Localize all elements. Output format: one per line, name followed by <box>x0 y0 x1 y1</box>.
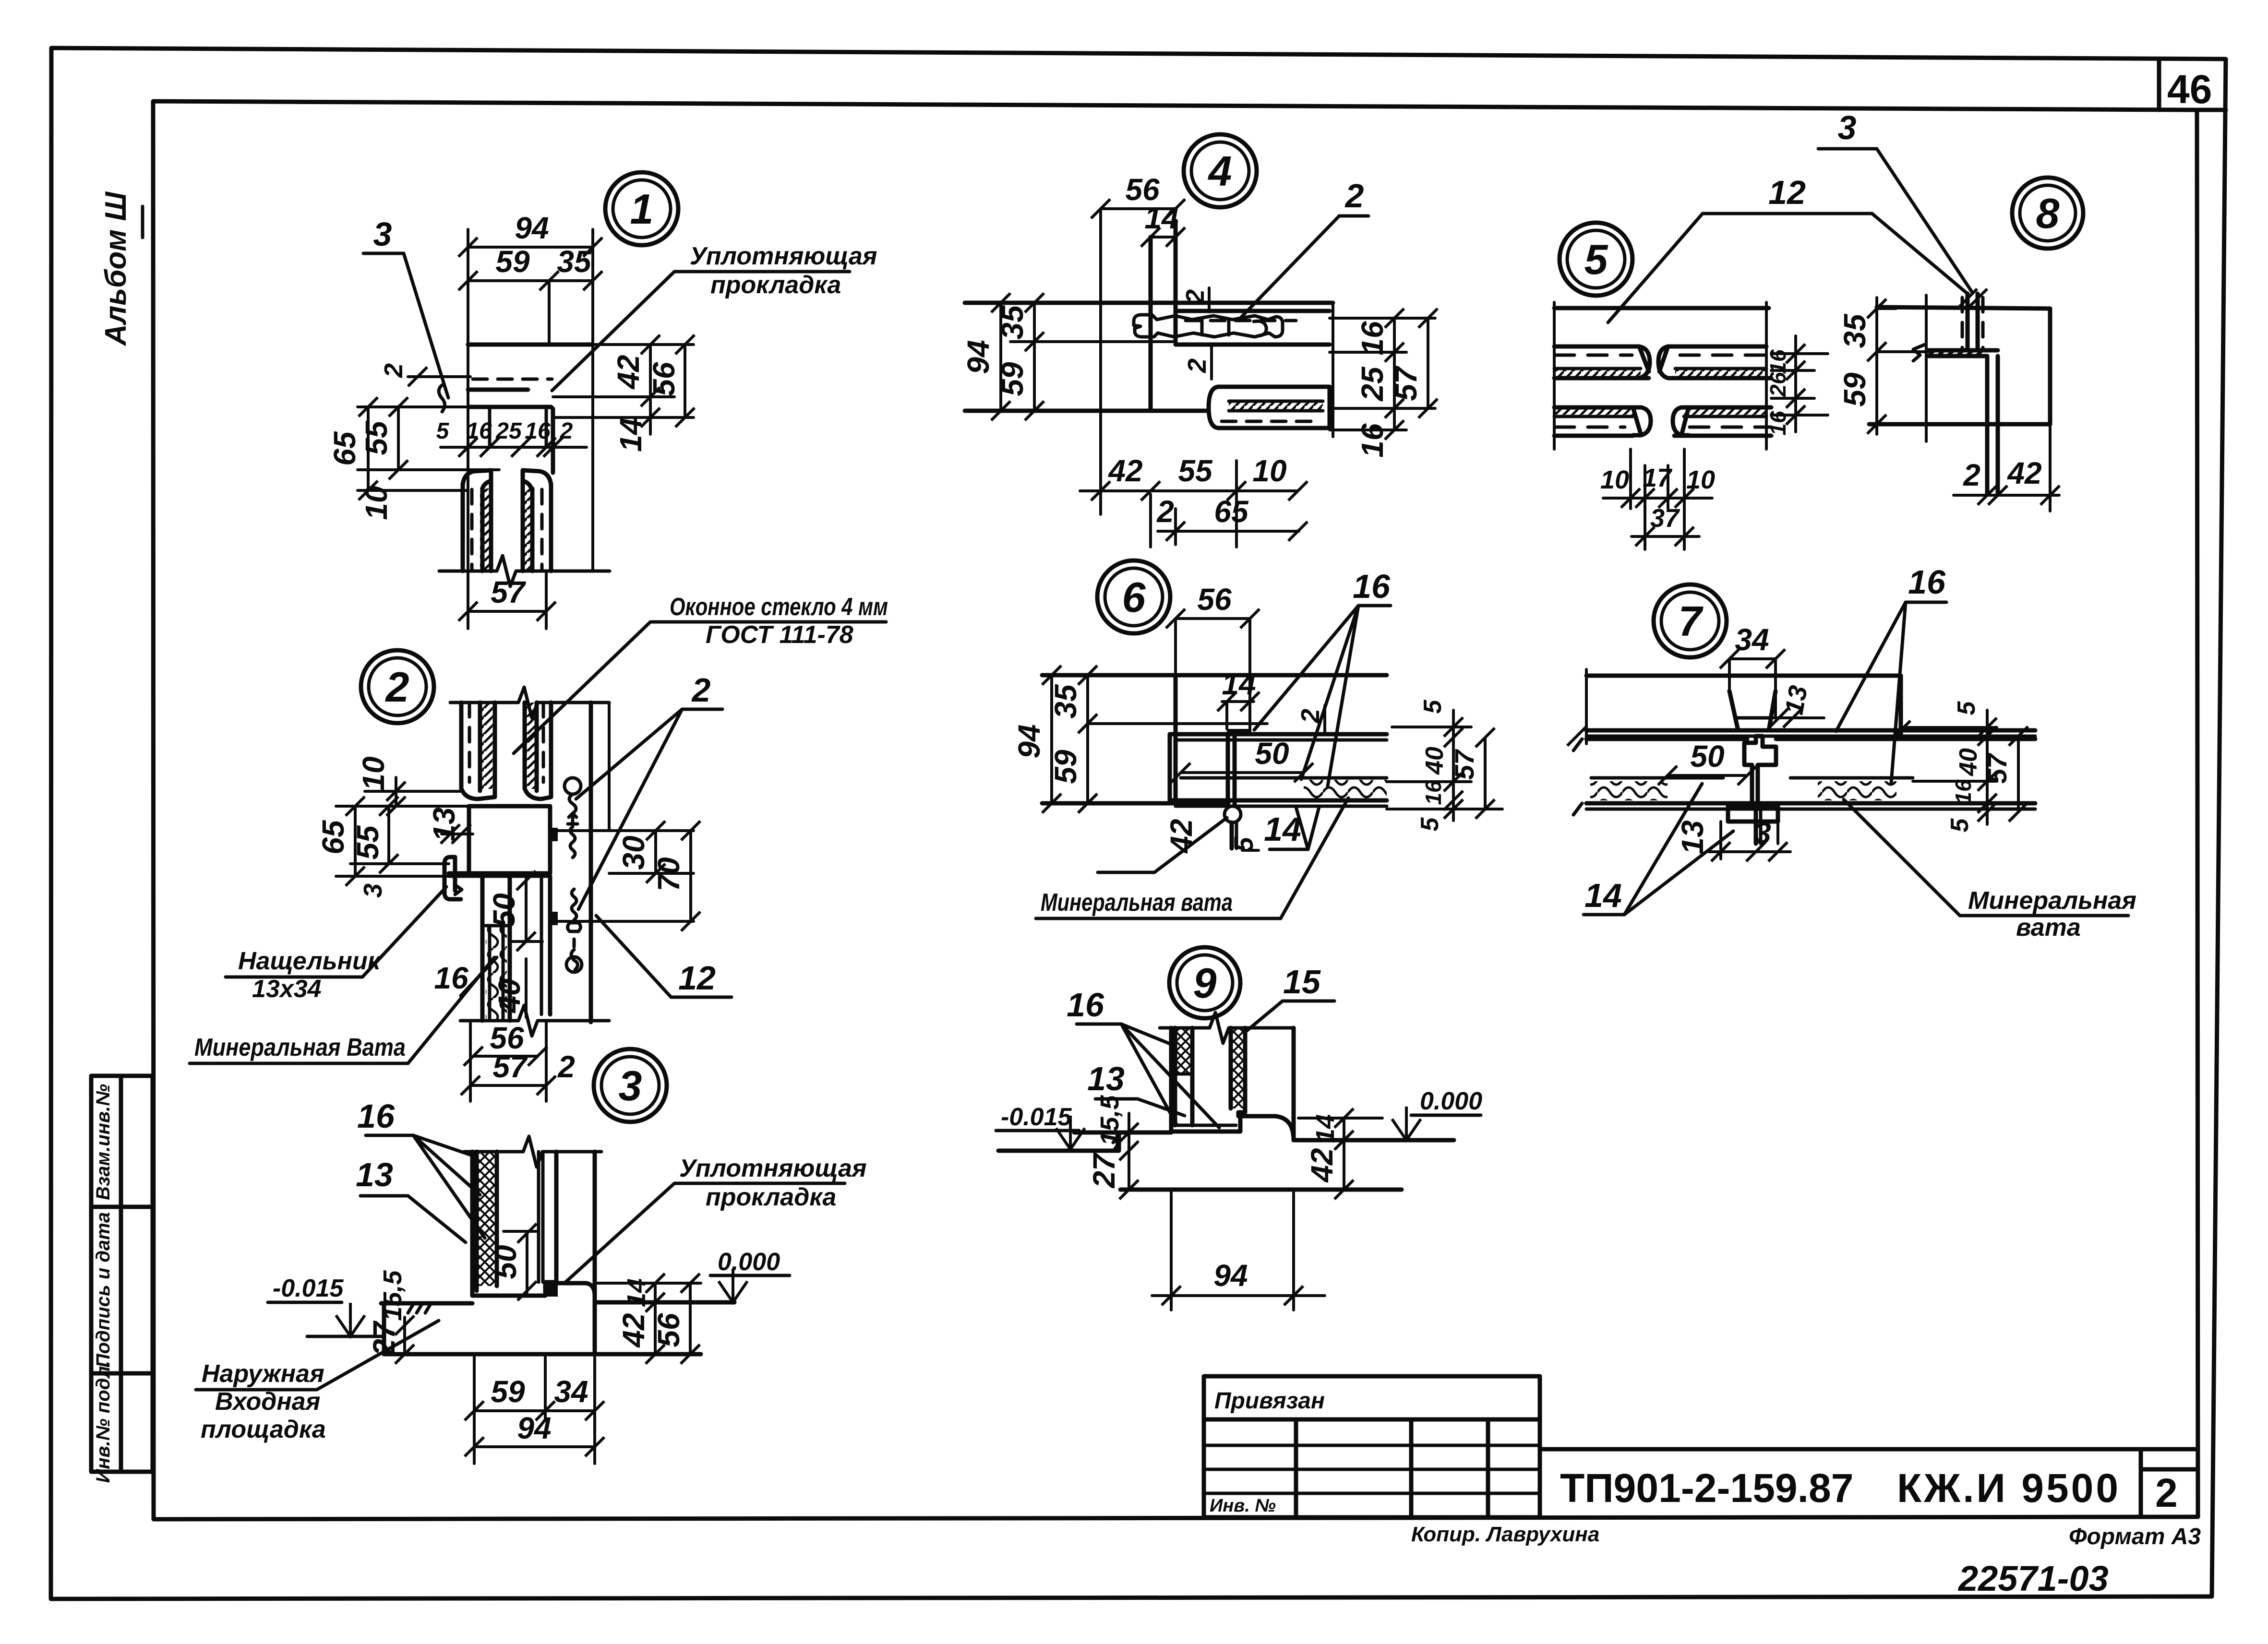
sheet inner border frame <box>153 101 2198 1519</box>
svg-text:30: 30 <box>616 835 651 870</box>
dim 42 with leader (detail 6) <box>1098 818 1227 872</box>
svg-text:Входная: Входная <box>215 1388 320 1416</box>
label 16 (detail 2) <box>434 957 497 996</box>
svg-text:27: 27 <box>1087 1152 1121 1189</box>
view circle 1 <box>605 172 678 245</box>
svg-text:вата: вата <box>2016 914 2081 941</box>
svg-text:16: 16 <box>1765 411 1790 436</box>
svg-text:35: 35 <box>995 305 1030 340</box>
lower unit with wool packing <box>482 876 550 1021</box>
svg-text:50: 50 <box>487 893 521 927</box>
svg-text:42: 42 <box>611 355 646 390</box>
svg-text:Копир. Лаврухина: Копир. Лаврухина <box>1411 1523 1599 1546</box>
svg-text:2: 2 <box>1156 494 1174 529</box>
svg-text:4: 4 <box>1208 147 1232 195</box>
door leaf horizontal (detail 6) <box>1170 734 1387 806</box>
svg-text:65: 65 <box>316 820 350 855</box>
svg-text:ТП901-2-159.87: ТП901-2-159.87 <box>1560 1465 1853 1511</box>
upper leaf band (detail 5) <box>1554 346 1771 378</box>
label 16 fan (detail 9) <box>1067 986 1219 1128</box>
svg-text:16: 16 <box>466 418 492 444</box>
svg-text:1: 1 <box>630 185 654 233</box>
svg-text:16: 16 <box>434 961 468 995</box>
svg-text:65: 65 <box>327 431 362 466</box>
note: Уплотняющая прокладка (detail 1) <box>552 242 877 391</box>
svg-text:Инв.№ подл.: Инв.№ подл. <box>93 1361 114 1483</box>
svg-text:Подпись и дата: Подпись и дата <box>93 1212 114 1368</box>
label 13 left (detail 2) <box>427 807 473 844</box>
svg-text:5: 5 <box>436 418 450 444</box>
interior floor (detail 9) <box>1294 1138 1454 1143</box>
dim 94 <box>458 211 602 257</box>
svg-text:3: 3 <box>1838 109 1857 146</box>
svg-text:Оконное стекло 4 мм: Оконное стекло 4 мм <box>670 593 888 621</box>
svg-text:35: 35 <box>1837 313 1872 348</box>
left dims 15,5 27 (detail 9) <box>1087 1095 1139 1199</box>
svg-text:25: 25 <box>495 418 522 444</box>
svg-text:16: 16 <box>1421 780 1446 805</box>
svg-text:50: 50 <box>1690 739 1724 774</box>
svg-text:16: 16 <box>525 418 551 444</box>
upper right sash <box>525 703 551 799</box>
svg-text:5: 5 <box>1584 236 1608 283</box>
corner drawing (detail 8) <box>1869 289 2050 493</box>
svg-text:ГОСТ 111-78: ГОСТ 111-78 <box>706 621 853 649</box>
level 0.000 (detail 9) <box>1392 1087 1482 1140</box>
svg-text:13: 13 <box>1087 1060 1125 1097</box>
frame bottom and gasket blob <box>472 1280 595 1297</box>
bottom dims 13 3 (detail 7) <box>1675 816 1790 861</box>
left leaf (detail 7) <box>1573 739 2035 815</box>
svg-text:14: 14 <box>1264 810 1301 848</box>
svg-text:13: 13 <box>1780 683 1813 717</box>
svg-text:15,5: 15,5 <box>378 1270 407 1321</box>
small 2 (detail 6) <box>1296 705 1325 733</box>
svg-text:9: 9 <box>1193 959 1217 1007</box>
svg-text:94: 94 <box>517 1411 551 1445</box>
note: Уплотняющая прокладка (detail 3) <box>565 1155 867 1282</box>
dim 56 (detail 2) <box>464 1021 547 1066</box>
svg-text:35: 35 <box>557 244 592 279</box>
svg-text:3: 3 <box>359 883 387 898</box>
svg-text:34: 34 <box>1735 622 1769 657</box>
svg-text:22571-03: 22571-03 <box>1957 1559 2109 1598</box>
exterior platform with step (detail 9) <box>998 1132 1171 1151</box>
svg-text:40: 40 <box>1421 747 1449 775</box>
svg-text:57: 57 <box>1449 749 1479 780</box>
frame bottom profile (detail 9) <box>1171 1112 1294 1140</box>
left dims 27 15 5 (detail 3) <box>367 1270 414 1364</box>
label 14 with triangle (detail 6) <box>1264 807 1319 849</box>
dim 5 small (detail 6) <box>1228 837 1259 852</box>
svg-text:46: 46 <box>2167 67 2212 112</box>
svg-text:94: 94 <box>1213 1258 1248 1293</box>
svg-text:Уплотняющая: Уплотняющая <box>679 1155 867 1182</box>
small dim 2 ticks (detail 4) <box>1181 288 1212 379</box>
level mark 0.000 (detail 3) <box>710 1248 790 1302</box>
left sash section <box>463 470 491 571</box>
dim 14 (detail 4) <box>1141 201 1185 247</box>
foundation bottom (detail 9) <box>1120 1188 1402 1192</box>
lower door leaf (detail 4) <box>1209 387 1330 428</box>
svg-text:КЖ.И 9500: КЖ.И 9500 <box>1897 1465 2121 1511</box>
svg-text:94: 94 <box>961 340 996 374</box>
svg-text:14: 14 <box>1311 1114 1340 1143</box>
svg-text:2: 2 <box>1183 358 1212 373</box>
svg-text:57: 57 <box>492 1049 528 1084</box>
break line with zigzag <box>439 556 610 586</box>
svg-text:56: 56 <box>647 362 681 396</box>
svg-text:40: 40 <box>1955 748 1982 776</box>
frame with glazing (detail 3) <box>472 1152 595 1354</box>
svg-text:65: 65 <box>1214 494 1249 529</box>
dim 34 (detail 7) <box>1720 622 1785 718</box>
svg-text:59: 59 <box>1048 750 1083 784</box>
svg-text:37: 37 <box>1650 504 1680 533</box>
svg-text:56: 56 <box>651 1313 686 1347</box>
album label: Альбом III rotated <box>99 191 143 347</box>
svg-text:-0.015: -0.015 <box>1001 1103 1072 1131</box>
svg-text:0.000: 0.000 <box>1420 1087 1482 1115</box>
title block left table <box>1204 1376 1540 1517</box>
svg-text:16: 16 <box>1353 568 1391 605</box>
svg-text:Минеральная Вата: Минеральная Вата <box>194 1034 406 1061</box>
svg-text:прокладка: прокладка <box>710 271 841 299</box>
svg-text:15: 15 <box>1283 963 1321 1001</box>
top break (detail 9) <box>1160 1013 1294 1043</box>
svg-text:16: 16 <box>1355 423 1390 458</box>
svg-text:2: 2 <box>1296 709 1325 724</box>
svg-text:Наружная: Наружная <box>202 1360 324 1388</box>
note: Минеральная вата (detail 6) <box>1036 798 1348 918</box>
right stile with gaskets and springs <box>550 703 609 1022</box>
svg-text:16: 16 <box>1908 563 1946 601</box>
svg-text:42: 42 <box>1305 1148 1339 1183</box>
svg-text:70: 70 <box>651 857 686 891</box>
right dims 5 40 57 16 5 (detail 7) <box>1901 701 2028 832</box>
svg-text:5: 5 <box>1416 817 1444 831</box>
svg-text:14: 14 <box>613 417 648 452</box>
svg-text:16: 16 <box>1951 779 1976 804</box>
svg-text:16: 16 <box>1067 986 1104 1024</box>
svg-text:5: 5 <box>1419 699 1447 714</box>
dim 56 (detail 6) <box>1166 582 1260 734</box>
svg-text:17: 17 <box>1643 464 1673 492</box>
view circle 4 <box>1184 134 1257 207</box>
label 13 with leader (detail 3) <box>356 1156 466 1242</box>
lower leaf band (detail 5) <box>1554 407 1771 436</box>
svg-text:Минеральная: Минеральная <box>1968 887 2136 915</box>
svg-text:13: 13 <box>1675 820 1710 854</box>
svg-text:2: 2 <box>557 1049 575 1084</box>
svg-text:5: 5 <box>1946 818 1974 832</box>
note: Минеральная вата (detail 2) <box>190 957 494 1063</box>
svg-text:59: 59 <box>1837 372 1872 407</box>
view circle 5 <box>1560 223 1632 296</box>
left dims 94 35 59 (detail 4) <box>961 293 1044 420</box>
right dims 30 70 <box>552 821 700 931</box>
svg-text:94: 94 <box>515 211 549 245</box>
svg-text:прокладка: прокладка <box>706 1183 836 1211</box>
label 2 with two leaders <box>576 671 722 909</box>
upper left sash <box>461 703 495 799</box>
bottom dims 10 17 10 37 (detail 5) <box>1600 449 1715 549</box>
right dim cluster 42 56 14 <box>553 335 695 452</box>
note: Оконное стекло 4мм ГОСТ 111-78 <box>514 593 888 753</box>
label 3 with leader <box>363 215 448 412</box>
svg-text:57: 57 <box>1389 365 1423 401</box>
dim 13 top (detail 7) <box>1747 683 1824 727</box>
right extension vertical (detail 4) <box>1332 303 1334 437</box>
svg-text:57: 57 <box>491 575 527 609</box>
left dims 35 59 (detail 8) <box>1837 298 1929 434</box>
svg-text:Взам.инв.№: Взам.инв.№ <box>93 1084 114 1200</box>
level mark -0.015 <box>268 1275 381 1336</box>
svg-text:57: 57 <box>1982 752 2012 784</box>
dim 57 <box>458 571 556 629</box>
label 12 with leader <box>596 916 732 997</box>
view circle 3 <box>594 1049 667 1122</box>
dim 14 (detail 6) <box>1217 667 1260 729</box>
spring latch symbols <box>564 778 582 972</box>
label 13 with leader (detail 9) <box>1087 1060 1185 1116</box>
dim 40 (detail 2) <box>492 959 527 1017</box>
label 16 fan (detail 6) <box>1254 568 1391 786</box>
top line (detail 5) <box>1554 306 1769 310</box>
svg-text:8: 8 <box>2036 190 2060 237</box>
upper door leaf with latch (detail 4) <box>1134 311 1330 345</box>
dim 57 2 (detail 2) <box>461 1021 575 1101</box>
svg-text:Альбом Ш: Альбом Ш <box>99 191 132 347</box>
svg-text:3: 3 <box>373 215 392 253</box>
note: Минеральная вата (detail 7) <box>1844 799 2136 941</box>
svg-text:50: 50 <box>488 1245 523 1279</box>
right dims 14 42 (detail 9) <box>1298 1108 1382 1199</box>
lintel slab <box>468 345 593 390</box>
svg-text:2: 2 <box>379 363 408 378</box>
svg-text:2: 2 <box>385 663 409 711</box>
frame box with glazing strips (detail 9) <box>1171 1028 1294 1140</box>
meeting frame member <box>449 806 550 876</box>
svg-text:10: 10 <box>1252 453 1286 488</box>
label 2 with leader (detail 4) <box>1239 177 1368 319</box>
svg-text:16: 16 <box>357 1097 395 1135</box>
interior floor line <box>595 1300 734 1305</box>
wall band (detail 6) <box>1042 675 1387 803</box>
svg-text:42: 42 <box>1107 453 1142 488</box>
svg-text:34: 34 <box>554 1374 588 1409</box>
label 3 with leader (detail 5/8) <box>1818 109 1972 292</box>
svg-text:Инв. №: Инв. № <box>1210 1496 1276 1516</box>
svg-text:55: 55 <box>359 420 394 455</box>
svg-text:Нащельник: Нащельник <box>238 947 382 975</box>
svg-text:12: 12 <box>678 959 716 997</box>
svg-text:55: 55 <box>1178 453 1213 488</box>
wall band and jamb (detail 4) <box>965 209 1333 514</box>
left margin stamp boxes <box>91 1076 153 1483</box>
bottom break (detail 2) <box>460 1005 609 1036</box>
dim 59 / 35 <box>458 244 602 345</box>
dim 56 (detail 4) <box>1091 172 1185 218</box>
dim 50 (detail 2) <box>487 871 542 951</box>
svg-text:50: 50 <box>1255 736 1289 771</box>
left dims 94 35 59 (detail 6) <box>1012 666 1097 813</box>
svg-text:42: 42 <box>1164 819 1199 854</box>
svg-text:6: 6 <box>1122 573 1146 621</box>
Z profile connector (detail 7) <box>1728 736 1778 844</box>
svg-text:3: 3 <box>1754 816 1771 850</box>
window frame head profile <box>468 407 553 473</box>
right dims 14 42 56 (detail 3) <box>595 1274 701 1364</box>
dim 50 (detail 3) <box>488 1224 537 1300</box>
svg-text:59: 59 <box>491 1374 525 1409</box>
svg-text:26: 26 <box>1765 372 1790 397</box>
bottom dims 42 55 10 2 65 (detail 4) <box>1080 453 1308 547</box>
svg-text:2: 2 <box>2155 1470 2178 1515</box>
view circle 6 <box>1097 560 1170 633</box>
svg-text:5: 5 <box>1953 701 1980 715</box>
svg-text:3: 3 <box>619 1062 642 1109</box>
svg-text:25: 25 <box>1355 366 1390 402</box>
svg-text:42: 42 <box>616 1313 651 1348</box>
svg-text:13: 13 <box>356 1156 393 1193</box>
left dims 10 65 55 3 <box>316 756 469 898</box>
dim 50 (detail 7) <box>1658 739 1757 785</box>
left dim cluster 2 65 55 10 <box>327 363 499 520</box>
svg-text:площадка: площадка <box>201 1416 326 1443</box>
svg-text:14: 14 <box>622 1278 651 1307</box>
svg-text:13х34: 13х34 <box>252 975 322 1003</box>
nashelnik clip <box>444 857 462 899</box>
svg-text:14: 14 <box>1222 667 1256 701</box>
svg-text:13: 13 <box>427 807 461 841</box>
label 15 with leader (detail 9) <box>1246 963 1334 1032</box>
exterior platform & step <box>381 1303 701 1354</box>
svg-text:10: 10 <box>359 486 394 520</box>
label 12 with long leader (detail 5) <box>1608 174 1968 322</box>
svg-text:35: 35 <box>1048 684 1083 719</box>
bottom dim 94 (detail 9) <box>1152 1190 1325 1310</box>
top break line <box>450 687 609 718</box>
svg-text:16: 16 <box>1355 321 1390 356</box>
right dims 5 40 57 16 5 (detail 6) <box>1387 699 1502 831</box>
svg-text:2: 2 <box>1963 458 1980 492</box>
small dims 5 16 25 16 2 <box>436 418 587 457</box>
note: Наружная входная площадка <box>196 1321 439 1443</box>
svg-text:42: 42 <box>2006 456 2041 490</box>
view circle 7 <box>1654 584 1727 657</box>
svg-text:10: 10 <box>1600 465 1629 494</box>
label 16 fan (detail 7) <box>1836 563 1946 783</box>
label 16 with leader fan (detail 3) <box>357 1097 485 1238</box>
top break (detail 3) <box>464 1136 601 1167</box>
view circle 8 <box>2012 178 2083 249</box>
svg-text:Формат А3: Формат А3 <box>2069 1524 2201 1549</box>
svg-text:94: 94 <box>1012 724 1046 758</box>
right dim cluster 16 25 57 16 (detail 4) <box>1330 309 1438 458</box>
svg-text:15,5: 15,5 <box>1095 1095 1124 1145</box>
svg-text:14: 14 <box>1584 877 1622 914</box>
svg-text:10: 10 <box>1686 465 1715 494</box>
page number box 46 <box>2159 60 2226 112</box>
svg-text:2: 2 <box>691 671 711 709</box>
svg-text:55: 55 <box>350 825 385 860</box>
svg-text:59: 59 <box>495 244 530 279</box>
svg-text:Уплотняющая: Уплотняющая <box>690 242 877 270</box>
svg-text:Привязан: Привязан <box>1214 1388 1325 1414</box>
svg-text:2: 2 <box>560 418 573 444</box>
svg-text:12: 12 <box>1768 174 1806 211</box>
right sash section <box>523 470 551 571</box>
svg-text:7: 7 <box>1679 597 1704 645</box>
bottom dims 59 34 94 (detail 3) <box>465 1354 604 1464</box>
svg-text:2: 2 <box>1344 177 1364 214</box>
right extension lines (detail 5) <box>1765 302 1828 449</box>
level -0.015 (detail 9) <box>996 1103 1085 1149</box>
svg-text:10: 10 <box>356 756 391 790</box>
svg-text:Минеральная вата: Минеральная вата <box>1041 889 1233 917</box>
title block right strip <box>1540 1449 2197 1517</box>
svg-text:0.000: 0.000 <box>718 1248 780 1276</box>
svg-text:56: 56 <box>1197 582 1232 617</box>
dim 50 (detail 6) <box>1171 736 1313 782</box>
svg-text:2: 2 <box>1181 289 1210 304</box>
svg-text:16: 16 <box>1765 349 1790 374</box>
extension lines <box>467 229 469 571</box>
note: Нащельник 13x34 <box>226 887 446 1003</box>
svg-text:59: 59 <box>995 362 1030 396</box>
top wall band (detail 7) <box>1586 669 2035 744</box>
view circle 9 <box>1169 947 1240 1018</box>
jamb with gasket and hinge (detail 6) <box>1224 729 1250 848</box>
view circle 2 <box>361 650 434 723</box>
right leaf (detail 7) <box>1567 676 2035 800</box>
bottom dims 2 42 (detail 8) <box>1954 424 2060 511</box>
svg-text:-0.015: -0.015 <box>273 1275 344 1302</box>
label 14 with two leaders (detail 7) <box>1584 784 1733 915</box>
